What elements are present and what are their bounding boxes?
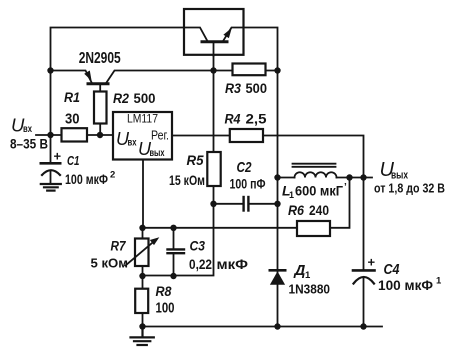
wire emitter of pass transistor to right vertical down to bottom rail <box>232 28 278 327</box>
resistor R5 <box>207 152 220 186</box>
wire output line right of inductor <box>337 177 373 179</box>
svg-text:500: 500 <box>246 81 268 96</box>
wire output line left of inductor <box>278 177 295 179</box>
wire R2 vertical <box>99 85 101 136</box>
node C2 right <box>274 201 280 207</box>
svg-text:Рег.: Рег. <box>151 128 169 142</box>
ground under C1 <box>41 184 61 191</box>
wire C1 lower stub <box>50 172 52 184</box>
wire C3 top lead <box>173 228 175 249</box>
svg-text:+: + <box>54 149 62 164</box>
node R5 bottom C2 left <box>210 201 216 207</box>
svg-text:8–35 В: 8–35 В <box>10 137 48 152</box>
ground under R8 <box>131 327 154 346</box>
node R7 bottom R8 top <box>139 273 145 279</box>
svg-text:от 1,8 до 32 В: от 1,8 до 32 В <box>374 181 445 196</box>
svg-text:100: 100 <box>156 300 175 317</box>
svg-text:600 мкГ: 600 мкГ <box>295 184 343 199</box>
svg-text:R8: R8 <box>156 284 172 299</box>
wire C2 left <box>214 203 243 205</box>
svg-text:C4: C4 <box>384 262 400 278</box>
inductor L1 <box>293 164 337 178</box>
wire C3 bottom lead <box>173 254 175 276</box>
svg-text:100 пФ: 100 пФ <box>230 177 266 192</box>
node R1 R2 LM117 input <box>97 132 103 138</box>
svg-text:вх: вх <box>128 137 137 149</box>
wire adjust pin to R4 and down to C4 <box>172 136 364 271</box>
node C3 bottom <box>170 273 176 279</box>
svg-text:R6: R6 <box>288 202 304 218</box>
IC U1 LM117 regulator box <box>113 112 172 160</box>
svg-text:R7: R7 <box>111 239 127 254</box>
wire top rail and left vertical <box>51 28 201 164</box>
node R8 bottom rail <box>139 323 145 329</box>
svg-text:2,5: 2,5 <box>246 112 268 127</box>
wire R3 horizontal <box>214 70 278 72</box>
node input entry <box>47 132 53 138</box>
node emitter left <box>47 67 53 73</box>
svg-text:15 кОм: 15 кОм <box>169 173 205 188</box>
wire C2 right <box>250 203 278 205</box>
svg-text:100 мкФ: 100 мкФ <box>65 171 108 187</box>
node R6 output junction <box>346 174 352 180</box>
resistor R3 <box>233 64 266 76</box>
svg-text:1: 1 <box>305 270 311 281</box>
svg-text:0,22: 0,22 <box>189 257 212 272</box>
capacitor C1 electrolytic <box>41 163 60 175</box>
svg-text:1: 1 <box>289 190 294 200</box>
svg-text:Д: Д <box>293 262 306 279</box>
wire R7 chain vertical <box>142 228 144 276</box>
node C4 bottom rail <box>360 323 366 329</box>
wire 2N2905 collector to base node <box>106 71 214 84</box>
node R3 right <box>274 67 280 73</box>
resistor R1 <box>62 128 88 141</box>
svg-text:R1: R1 <box>64 90 80 105</box>
node base of pass transistor <box>210 67 216 73</box>
svg-text:5 кОм: 5 кОм <box>91 256 129 271</box>
svg-text:R5: R5 <box>187 152 204 168</box>
svg-text:’: ’ <box>344 182 347 193</box>
capacitor C2 <box>244 197 249 211</box>
resistor R4 <box>230 129 263 142</box>
svg-text:R4: R4 <box>225 112 241 127</box>
svg-text:вх: вх <box>23 123 32 135</box>
node C4 R4 output junction <box>360 174 366 180</box>
svg-text:R3: R3 <box>225 81 241 96</box>
svg-text:2N2905: 2N2905 <box>79 50 121 67</box>
svg-text:1N3880: 1N3880 <box>289 283 331 297</box>
svg-text:100 мкФ: 100 мкФ <box>378 277 433 293</box>
wire input line <box>36 134 113 136</box>
node diode bottom rail <box>274 323 280 329</box>
svg-text:2: 2 <box>110 170 115 181</box>
wire LM117 output pin <box>142 160 144 228</box>
wire base node vertical down through R5 to bottom corner <box>143 43 214 276</box>
transistor Q1 pass transistor in box <box>184 9 244 55</box>
wire bottom rail <box>143 326 383 328</box>
capacitor C4 electrolytic <box>353 270 375 283</box>
svg-text:500: 500 <box>134 91 156 106</box>
svg-text:1: 1 <box>436 276 442 287</box>
svg-text:вых: вых <box>150 147 165 159</box>
transistor Q2 2N2905 <box>84 71 108 84</box>
svg-text:C1: C1 <box>67 153 80 168</box>
svg-text:мкФ: мкФ <box>217 257 249 272</box>
node C3 top <box>170 225 176 231</box>
svg-text:30: 30 <box>65 111 80 128</box>
wire lower node line to R6 and up to output <box>143 178 350 228</box>
resistor R7 variable <box>126 237 160 266</box>
svg-text:R2: R2 <box>113 91 129 106</box>
capacitor C3 <box>168 249 185 253</box>
wire C4 bottom stub <box>363 278 365 327</box>
svg-text:240: 240 <box>309 202 329 218</box>
svg-text:C2: C2 <box>237 159 253 176</box>
wire 2N2905 emitter to left node <box>51 71 93 84</box>
resistor R8 <box>135 289 148 313</box>
node LM117 out R7 top <box>139 225 145 231</box>
node inductor left <box>274 174 280 180</box>
svg-text:C3: C3 <box>190 239 206 254</box>
resistor R6 <box>297 221 330 236</box>
svg-text:+: + <box>368 255 376 270</box>
wire R8 chain vertical <box>142 276 144 327</box>
resistor R2 <box>94 92 107 124</box>
svg-text:LM117: LM117 <box>127 112 158 126</box>
diode D1 <box>270 270 285 285</box>
